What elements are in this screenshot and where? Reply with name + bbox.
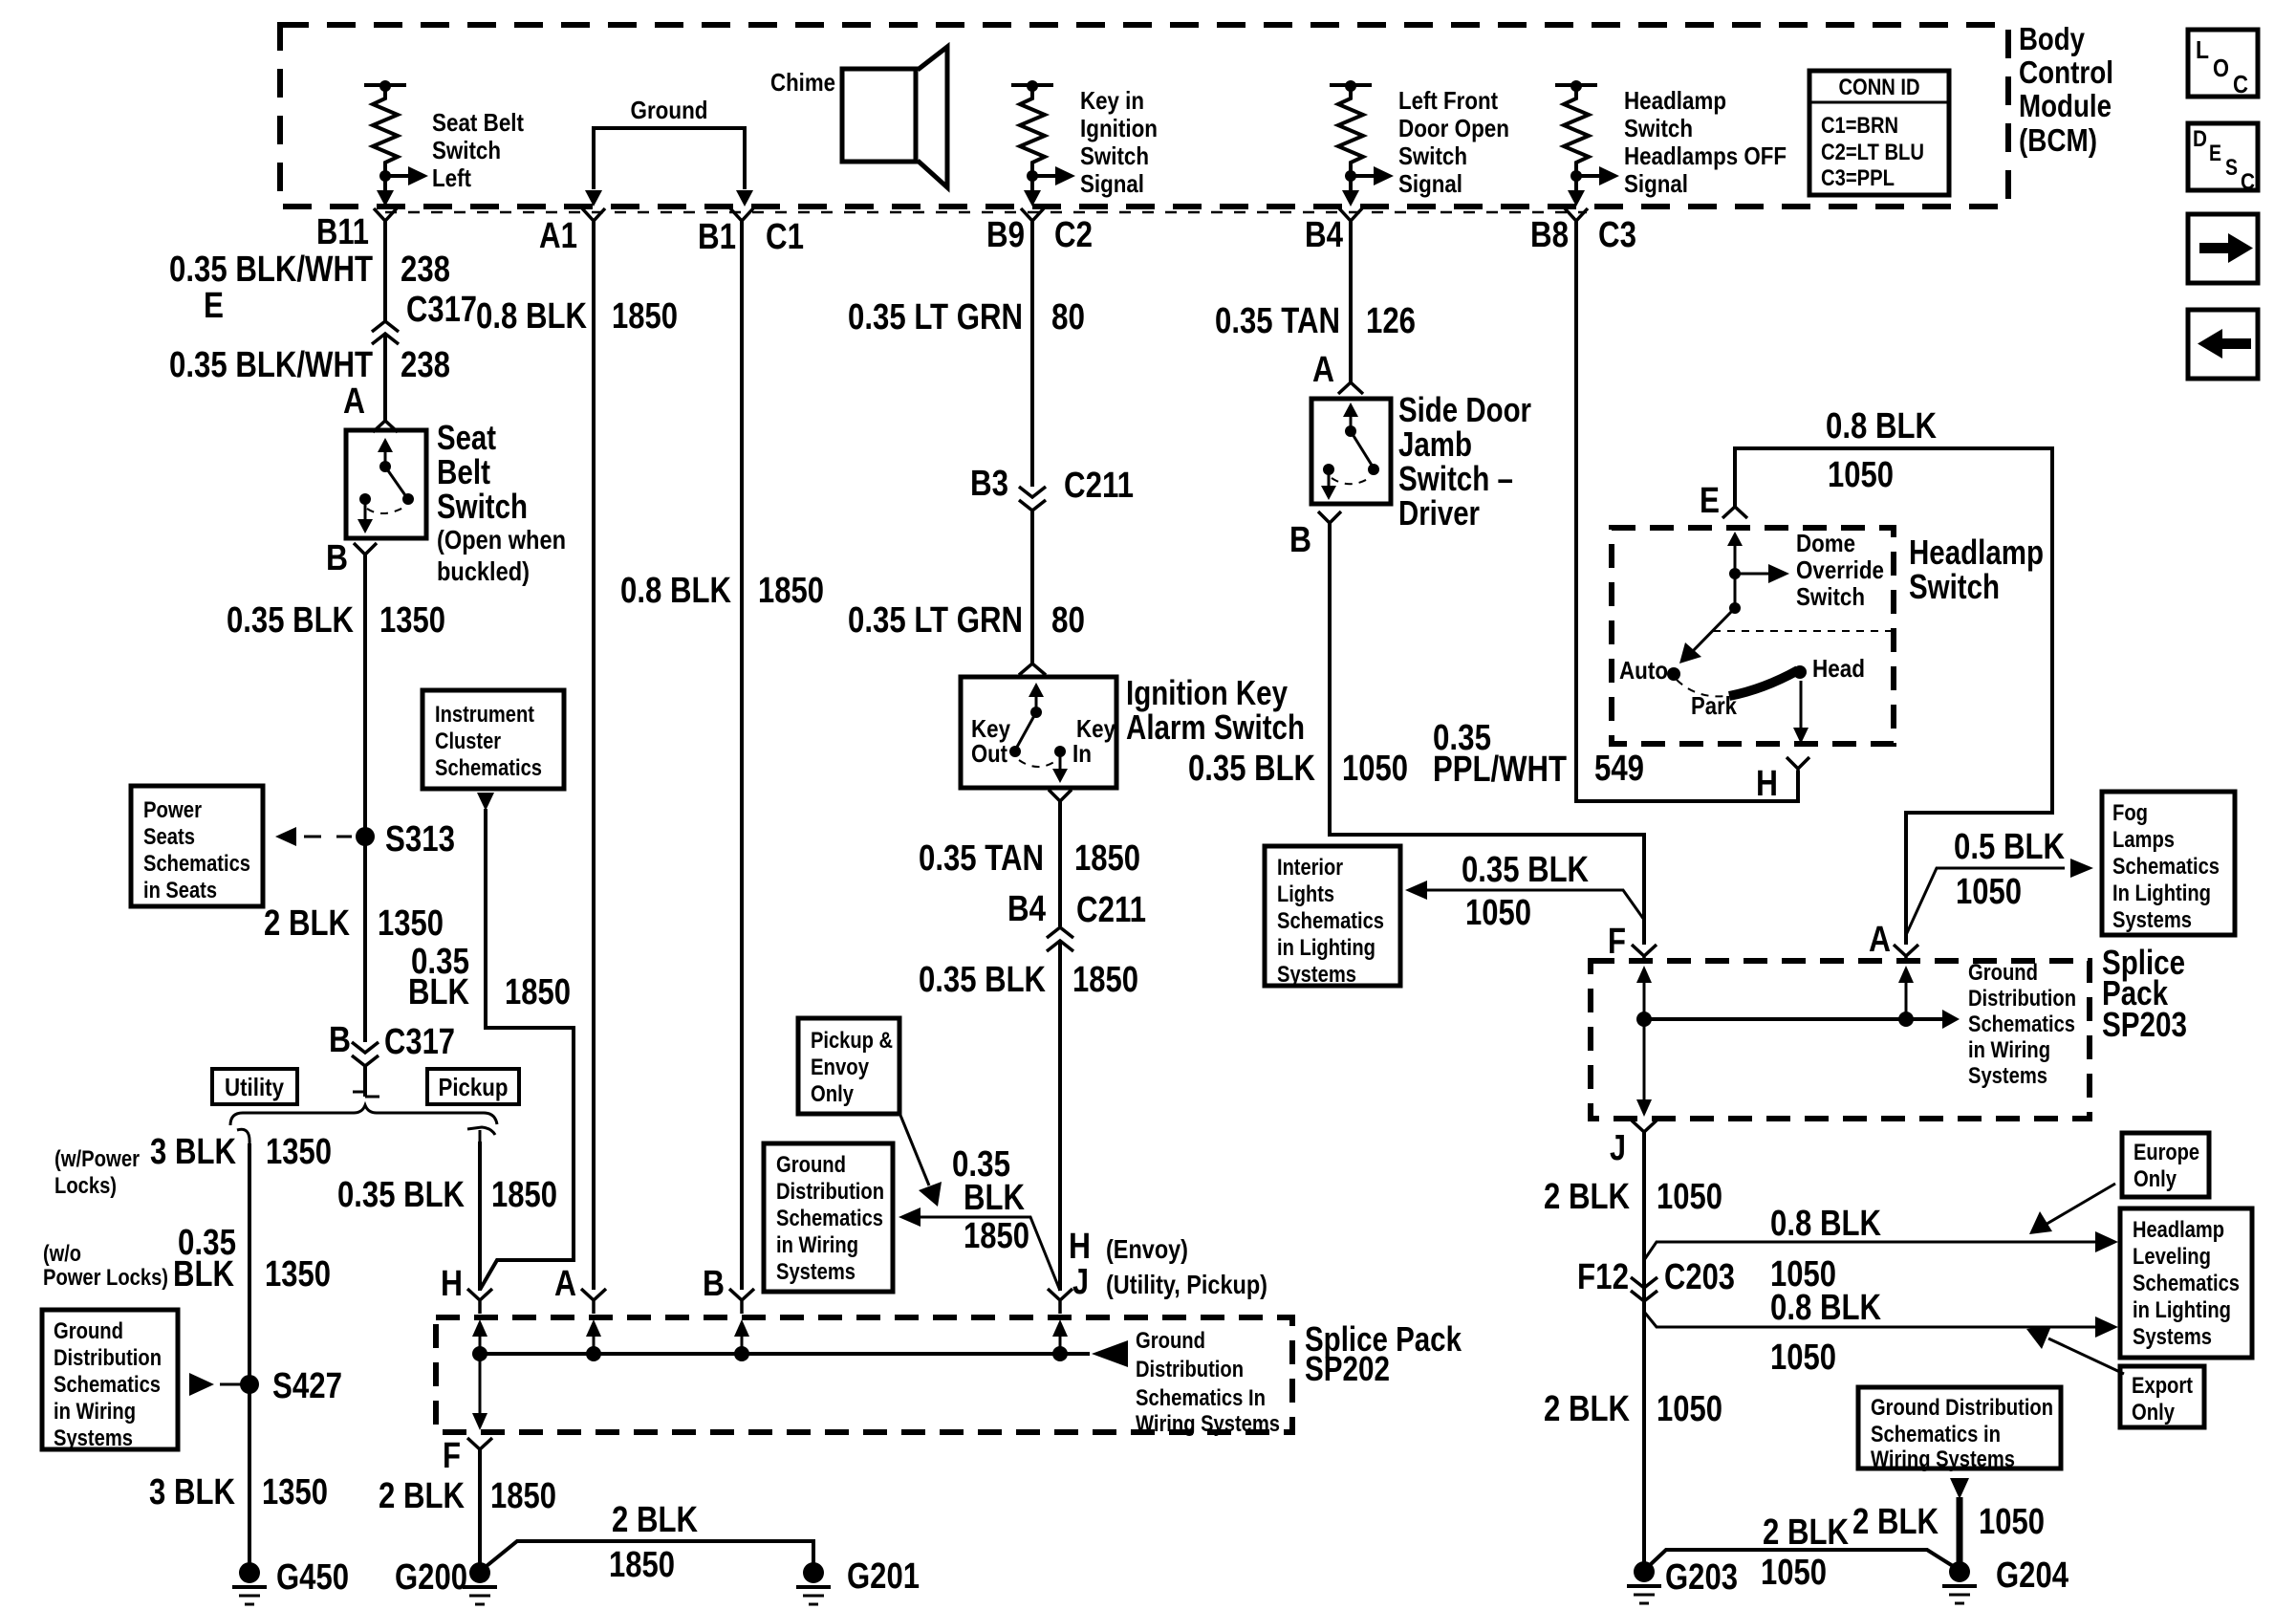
svg-text:Alarm Switch: Alarm Switch (1126, 707, 1305, 747)
ground G204 (1942, 1561, 1977, 1603)
SP202 J pin arrow (1052, 1319, 1068, 1361)
svg-text:Cluster: Cluster (435, 729, 501, 754)
ground G203 (1627, 1561, 1661, 1603)
svg-text:Schematics: Schematics (776, 1206, 883, 1231)
wire B9 to C211 (1030, 221, 1034, 487)
wire S313 to C317 (lower) (363, 837, 367, 1042)
Splice Pack SP203 name label (2102, 943, 2187, 1044)
svg-text:Schematics: Schematics (2133, 1271, 2240, 1296)
svg-text:0.8 BLK: 0.8 BLK (620, 571, 731, 611)
svg-text:G204: G204 (1996, 1556, 2069, 1596)
leader arrow from box to G204 wire (1950, 1478, 1969, 1499)
svg-text:SP202: SP202 (1305, 1349, 1390, 1388)
svg-text:(Open when: (Open when (437, 525, 566, 555)
Power Seats Schematics in Seats box (131, 786, 263, 906)
svg-text:Ground: Ground (776, 1152, 846, 1178)
svg-text:A: A (1312, 350, 1334, 390)
svg-text:Ground: Ground (631, 96, 708, 124)
svg-text:C3: C3 (1598, 215, 1636, 255)
svg-text:Schematics In: Schematics In (1136, 1385, 1266, 1411)
pin E chevron (1722, 507, 1747, 518)
svg-text:0.8 BLK: 0.8 BLK (1770, 1204, 1881, 1244)
svg-text:Fog: Fog (2112, 800, 2148, 826)
svg-text:0.35 BLK: 0.35 BLK (919, 960, 1046, 1000)
svg-text:Switch: Switch (1398, 141, 1467, 170)
DESC nav box (2188, 123, 2258, 195)
seat belt switch contacts (357, 438, 414, 533)
svg-text:0.8 BLK: 0.8 BLK (476, 296, 587, 337)
svg-text:(Utility, Pickup): (Utility, Pickup) (1106, 1270, 1267, 1299)
svg-text:Module: Module (2019, 88, 2112, 123)
wire ignition switch to C211 (B4) (1058, 801, 1062, 926)
svg-text:Signal: Signal (1624, 169, 1688, 198)
SP202 pin A chevron (581, 1289, 606, 1314)
resistor: Left Front Door Open Switch Signal (in BCM) (1330, 80, 1509, 207)
svg-text:Out: Out (971, 739, 1007, 768)
wire instrument cluster 1850 run (480, 809, 574, 1290)
leader arrow from Instrument Cluster box (477, 793, 494, 811)
svg-text:Jamb: Jamb (1398, 424, 1472, 464)
svg-text:C: C (2241, 169, 2255, 195)
svg-text:J: J (1610, 1128, 1626, 1168)
svg-text:In: In (1072, 739, 1092, 768)
svg-text:1850: 1850 (491, 1175, 557, 1215)
Ground Distribution Schematics in Wiring Systems box (bottom right) (1858, 1387, 2061, 1472)
dome override switch label (1796, 529, 1884, 611)
svg-text:Headlamp: Headlamp (2133, 1217, 2224, 1243)
pin B11 connector chevron (374, 208, 397, 221)
svg-text:B: B (329, 1020, 351, 1060)
svg-text:E: E (2209, 141, 2221, 166)
svg-text:Switch: Switch (1080, 141, 1149, 170)
svg-text:in Wiring: in Wiring (776, 1232, 858, 1258)
svg-text:3 BLK: 3 BLK (150, 1132, 236, 1172)
wire Head contact to H pin (1793, 681, 1809, 744)
wire G203 to G204 (1650, 1550, 1953, 1566)
svg-text:H: H (1069, 1227, 1091, 1267)
svg-text:BLK: BLK (408, 972, 469, 1012)
ground G201 (796, 1562, 831, 1604)
svg-text:Schematics in: Schematics in (1871, 1422, 2001, 1447)
svg-text:0.8 BLK: 0.8 BLK (1770, 1288, 1881, 1328)
seat belt switch box (346, 430, 426, 538)
SP203 pin A chevron (1894, 945, 1918, 964)
svg-text:S427: S427 (272, 1366, 342, 1406)
SP202 A pin arrow (586, 1319, 601, 1361)
svg-text:0.35 BLK/WHT: 0.35 BLK/WHT (169, 250, 373, 290)
svg-text:Seats: Seats (143, 824, 195, 850)
resistor: Headlamp Switch Headlamps OFF Signal (in BCM) (1555, 80, 1787, 207)
svg-text:in Wiring: in Wiring (1968, 1037, 2050, 1063)
Auto contact (1619, 656, 1680, 685)
utility branch hook (237, 1129, 249, 1143)
wire label 0.35 BLK 1850 (branch) (952, 1144, 1029, 1256)
svg-text:Ignition: Ignition (1080, 114, 1158, 142)
svg-text:Envoy: Envoy (811, 1055, 870, 1080)
svg-text:Body: Body (2019, 21, 2086, 56)
SP203 internal text (1968, 960, 2076, 1089)
svg-text:G201: G201 (847, 1556, 920, 1597)
in-line connector C203 (double chevron down) (1631, 1277, 1657, 1301)
headlamp switch dashed box (1612, 528, 1894, 744)
side door jamb switch box (1311, 399, 1391, 504)
svg-text:238: 238 (401, 345, 450, 385)
svg-text:1050: 1050 (1761, 1553, 1827, 1593)
svg-text:A: A (1869, 920, 1891, 960)
svg-text:1350: 1350 (379, 600, 445, 641)
svg-text:2 BLK: 2 BLK (1544, 1389, 1630, 1429)
svg-text:0.35 BLK: 0.35 BLK (1188, 749, 1315, 789)
svg-text:Left Front: Left Front (1398, 86, 1498, 115)
svg-text:Switch: Switch (1909, 567, 2000, 606)
Fog Lamps Schematics In Lighting Systems box (2102, 792, 2235, 935)
headlamp switch travel dashed arc (1677, 680, 1725, 696)
svg-text:Ground Distribution: Ground Distribution (1871, 1395, 2053, 1421)
SP202 H pin arrow (472, 1319, 487, 1361)
svg-text:E: E (204, 286, 224, 326)
pin B chevron (jamb switch) (1318, 511, 1341, 523)
svg-text:(BCM): (BCM) (2019, 122, 2097, 158)
Pickup and Envoy Only box (798, 1018, 899, 1114)
headlamp switch inner dashed divider (1713, 630, 1891, 632)
svg-text:G450: G450 (276, 1557, 349, 1598)
svg-text:2 BLK: 2 BLK (612, 1500, 698, 1540)
leader arrow Export Only to branch (2026, 1326, 2124, 1374)
CONN ID table (in BCM) (1809, 71, 1949, 195)
svg-text:1050: 1050 (1828, 455, 1894, 495)
svg-text:1350: 1350 (266, 1132, 332, 1172)
svg-text:Power: Power (143, 797, 202, 823)
Splice Pack SP202 name label (1305, 1319, 1462, 1388)
svg-text:Only: Only (811, 1081, 855, 1107)
pin A1 connector chevron (582, 208, 605, 221)
svg-text:C3=PPL: C3=PPL (1821, 165, 1895, 191)
svg-text:G203: G203 (1665, 1557, 1738, 1598)
svg-text:1350: 1350 (265, 1254, 331, 1295)
svg-text:1850: 1850 (1072, 960, 1138, 1000)
svg-text:(Envoy): (Envoy) (1106, 1234, 1188, 1264)
svg-text:0.35 BLK: 0.35 BLK (227, 600, 354, 641)
svg-text:Europe: Europe (2134, 1140, 2199, 1165)
SP203 F pin arrow (1636, 966, 1652, 1027)
pin B1 connector chevron (730, 208, 753, 221)
svg-text:Pickup &: Pickup & (811, 1028, 893, 1054)
headlamp switch name label (1909, 533, 2044, 606)
LOC nav box (2188, 30, 2258, 98)
svg-text:Chime: Chime (770, 68, 835, 97)
svg-text:Distribution: Distribution (1136, 1357, 1244, 1382)
svg-text:1050: 1050 (1465, 893, 1531, 933)
BCM connector face dashed line (385, 211, 1587, 214)
wire C1 ground run (740, 221, 744, 1290)
svg-text:Utility: Utility (225, 1073, 284, 1101)
BCM name label (2019, 21, 2113, 158)
svg-text:1350: 1350 (262, 1472, 328, 1512)
pin B chevron (seat belt switch) (354, 543, 377, 555)
ground G200 (463, 1562, 497, 1604)
svg-text:Wiring Systems: Wiring Systems (1871, 1447, 2015, 1472)
wire C3 headlamp signal run (1576, 221, 1798, 801)
wire C211 to splice pack J pin (1058, 941, 1062, 1291)
svg-text:Switch: Switch (432, 136, 501, 164)
pin B8 connector chevron (1565, 208, 1588, 221)
svg-text:Headlamps OFF: Headlamps OFF (1624, 141, 1787, 170)
wire jamb switch B to SP203 F pin (1330, 523, 1644, 945)
wire F to G200 (478, 1449, 482, 1569)
Interior Lights Schematics in Lighting Systems box (1265, 846, 1400, 988)
svg-text:C1=BRN: C1=BRN (1821, 113, 1898, 139)
svg-text:C203: C203 (1664, 1257, 1735, 1297)
svg-text:Ignition Key: Ignition Key (1126, 673, 1288, 712)
svg-text:F: F (1608, 922, 1626, 962)
svg-text:Door Open: Door Open (1398, 114, 1509, 142)
leader arrow Europe Only to branch (2029, 1184, 2115, 1234)
svg-text:1850: 1850 (505, 972, 571, 1012)
splice S313 (356, 827, 375, 846)
SP203 pin J chevron (1632, 1120, 1657, 1142)
in-line connector C317 (double chevron) (372, 321, 399, 344)
chime speaker (in BCM) (770, 47, 947, 187)
resistor: Seat Belt Switch Left (in BCM) (364, 80, 524, 207)
svg-text:in Lighting: in Lighting (1277, 935, 1375, 961)
fog lamps leader arrow 0.5 BLK 1050 (1906, 859, 2093, 935)
svg-text:SP203: SP203 (2102, 1005, 2187, 1044)
wire A1 ground run (592, 221, 596, 1290)
wire C317 to split brace (363, 1066, 367, 1097)
wire C317 to seat belt switch (383, 334, 387, 421)
svg-text:2 BLK: 2 BLK (264, 903, 350, 944)
svg-text:Ground: Ground (1136, 1328, 1205, 1354)
svg-text:Export: Export (2132, 1373, 2193, 1399)
svg-text:in Lighting: in Lighting (2133, 1297, 2231, 1323)
svg-text:Lights: Lights (1277, 881, 1334, 907)
svg-text:Pickup: Pickup (439, 1073, 509, 1101)
Headlamp Leveling Schematics in Lighting Systems box (2120, 1208, 2252, 1358)
svg-text:Override: Override (1796, 555, 1884, 584)
dashed leader arrow S313 to Power Seats box (275, 827, 352, 846)
svg-text:BLK: BLK (173, 1254, 234, 1295)
side door jamb switch contacts (1321, 402, 1379, 500)
svg-text:1050: 1050 (1979, 1502, 2045, 1542)
Instrument Cluster Schematics box (422, 690, 564, 789)
svg-text:2 BLK: 2 BLK (1544, 1177, 1630, 1217)
svg-text:0.35 BLK: 0.35 BLK (1462, 850, 1589, 890)
svg-text:A: A (554, 1264, 576, 1304)
svg-text:H: H (441, 1264, 463, 1304)
utility branch wire to G450 (248, 1143, 251, 1569)
svg-text:1350: 1350 (378, 903, 444, 944)
ignition key alarm switch box (961, 677, 1116, 788)
svg-text:Left: Left (432, 163, 471, 192)
svg-text:1850: 1850 (758, 571, 824, 611)
svg-text:Schematics: Schematics (435, 755, 542, 781)
svg-text:1050: 1050 (1657, 1389, 1722, 1429)
svg-text:C211: C211 (1076, 890, 1146, 930)
ignition key alarm switch name label (1126, 673, 1305, 747)
svg-text:B3: B3 (970, 464, 1008, 504)
svg-text:E: E (1700, 481, 1720, 521)
Europe Only box (2122, 1133, 2209, 1197)
svg-text:1050: 1050 (1342, 749, 1408, 789)
splice pack SP202 dashed box (436, 1317, 1292, 1432)
svg-text:Distribution: Distribution (776, 1179, 884, 1205)
svg-text:Auto: Auto (1619, 656, 1668, 685)
headlamp switch feed loop 0.8 BLK 1050 (1735, 448, 2052, 945)
SP203 pin F chevron (1632, 945, 1657, 964)
svg-text:C317: C317 (406, 290, 477, 330)
Body Control Module (BCM) dashed box (280, 25, 2008, 207)
Ground Distribution Schematics in Wiring Systems box (left) (42, 1310, 178, 1451)
svg-text:L: L (2196, 35, 2209, 64)
svg-text:in Wiring: in Wiring (54, 1399, 136, 1425)
svg-text:0.35 BLK/WHT: 0.35 BLK/WHT (169, 345, 373, 385)
svg-text:238: 238 (401, 250, 450, 290)
svg-text:(w/Power: (w/Power (54, 1146, 140, 1172)
svg-text:C: C (2233, 70, 2248, 98)
svg-text:B1: B1 (698, 217, 736, 257)
svg-text:B: B (1289, 520, 1311, 560)
SP203 internal bus (1644, 1017, 1944, 1021)
wire B4 to side door jamb switch (1349, 221, 1353, 382)
SP202 ground distribution leader arrow (1092, 1340, 1128, 1367)
pin B9 connector chevron (1021, 208, 1044, 221)
svg-text:80: 80 (1051, 600, 1085, 641)
svg-text:D: D (2193, 126, 2207, 152)
svg-text:Lamps: Lamps (2112, 827, 2175, 853)
svg-text:Key in: Key in (1080, 86, 1144, 115)
splice S427 (240, 1375, 259, 1394)
svg-text:Dome: Dome (1796, 529, 1855, 557)
svg-text:CONN ID: CONN ID (1839, 75, 1920, 100)
svg-text:Switch: Switch (437, 487, 528, 526)
seat belt switch name label (437, 418, 566, 586)
svg-text:S313: S313 (385, 819, 455, 859)
svg-text:C317: C317 (384, 1022, 455, 1062)
Utility tag box (212, 1069, 297, 1104)
SP202 B pin arrow (734, 1319, 749, 1361)
wire seat belt switch to S313 (363, 555, 367, 837)
SP203 J pin down arrow (1636, 1019, 1652, 1117)
svg-text:0.35 TAN: 0.35 TAN (1215, 301, 1340, 341)
splice pack SP203 dashed box (1591, 961, 2090, 1119)
svg-text:0.35 TAN: 0.35 TAN (919, 838, 1044, 879)
svg-text:Systems: Systems (54, 1425, 133, 1451)
svg-text:1850: 1850 (612, 296, 678, 337)
SP202 pin H chevron (467, 1289, 492, 1314)
svg-text:B: B (326, 538, 348, 578)
svg-text:0.35 LT GRN: 0.35 LT GRN (848, 297, 1023, 337)
svg-text:Seat Belt: Seat Belt (432, 108, 524, 137)
in-line connector C317 lower (double chevron down) (352, 1042, 379, 1066)
wire G200 to G201 (487, 1541, 813, 1566)
svg-text:Signal: Signal (1080, 169, 1144, 198)
svg-text:549: 549 (1594, 749, 1644, 789)
svg-text:1050: 1050 (1956, 872, 2022, 912)
svg-text:PPL/WHT: PPL/WHT (1433, 750, 1567, 790)
ignition key alarm switch contacts (971, 683, 1116, 783)
leader arrow to S427 (189, 1373, 241, 1396)
svg-text:Headlamp: Headlamp (1624, 86, 1726, 115)
svg-text:0.8 BLK: 0.8 BLK (1826, 406, 1937, 446)
pin A chevron (373, 421, 398, 432)
headlamp switch internals (1679, 532, 1789, 664)
svg-text:0.35 LT GRN: 0.35 LT GRN (848, 600, 1023, 641)
ignition switch output chevron (1049, 790, 1072, 801)
in-line connector C211 (double chevron down) (1019, 487, 1046, 511)
svg-text:C2=LT BLU: C2=LT BLU (1821, 140, 1924, 165)
wire B11 to C317 (383, 221, 387, 321)
branch wire 0.8 BLK to headlamp leveling (europe) (1644, 1231, 2118, 1260)
svg-text:C1: C1 (766, 217, 804, 257)
svg-text:Ground: Ground (1968, 960, 2038, 986)
svg-text:Systems: Systems (776, 1259, 856, 1285)
svg-text:In Lighting: In Lighting (2112, 881, 2211, 906)
svg-text:0.5 BLK: 0.5 BLK (1954, 827, 2065, 867)
svg-text:Only: Only (2134, 1166, 2177, 1192)
svg-text:Systems: Systems (2112, 907, 2192, 933)
resistor: Key in Ignition Switch Signal (in BCM) (1011, 80, 1158, 207)
Ground loop wire (in BCM) (585, 96, 753, 207)
svg-text:0.35 BLK: 0.35 BLK (337, 1175, 465, 1215)
svg-text:1050: 1050 (1657, 1177, 1722, 1217)
wire C211 to ignition key alarm switch (1030, 511, 1034, 664)
svg-text:Driver: Driver (1398, 493, 1480, 533)
svg-text:C211: C211 (1064, 466, 1134, 506)
svg-text:1050: 1050 (1770, 1338, 1836, 1378)
split brace (230, 1105, 497, 1125)
svg-text:O: O (2213, 54, 2229, 82)
Export Only box (2120, 1366, 2204, 1427)
svg-text:Side Door: Side Door (1398, 390, 1531, 429)
headlamp switch blade (thick arc) (1729, 670, 1798, 696)
svg-text:1850: 1850 (490, 1476, 556, 1516)
svg-text:in Seats: in Seats (143, 878, 217, 903)
SP202 pin F chevron (467, 1438, 492, 1463)
svg-text:A1: A1 (539, 216, 577, 256)
svg-text:Schematics: Schematics (1277, 908, 1384, 934)
svg-text:C2: C2 (1054, 215, 1093, 255)
wire J to G203 (1642, 1132, 1646, 1566)
SP202 pin B chevron (729, 1289, 754, 1314)
svg-text:Only: Only (2132, 1400, 2176, 1425)
branch arrow to ground distribution box (899, 1207, 1060, 1291)
interior lights leader arrow (1405, 881, 1644, 920)
SP203 bus right arrow (1942, 1010, 1960, 1029)
svg-text:Power Locks): Power Locks) (43, 1265, 168, 1291)
svg-text:A: A (343, 381, 365, 422)
svg-text:Switch –: Switch – (1398, 459, 1513, 498)
SP203 A pin arrow (1898, 966, 1914, 1027)
svg-text:G200: G200 (395, 1557, 467, 1598)
svg-text:Leveling: Leveling (2133, 1244, 2211, 1270)
SP202 pin J chevron (1048, 1289, 1072, 1314)
SP202 internal text (1136, 1328, 1280, 1437)
svg-text:B: B (703, 1264, 725, 1304)
branch wire 0.8 BLK to headlamp leveling (export) (1644, 1312, 2118, 1338)
svg-text:Schematics: Schematics (1968, 1012, 2075, 1037)
leader arrow from Pickup and Envoy box (899, 1113, 942, 1207)
svg-text:1850: 1850 (609, 1545, 675, 1585)
svg-text:(w/o: (w/o (43, 1241, 81, 1267)
svg-text:B4: B4 (1305, 215, 1343, 255)
svg-text:126: 126 (1366, 301, 1416, 341)
svg-text:Interior: Interior (1277, 855, 1343, 881)
svg-text:Control: Control (2019, 54, 2113, 90)
svg-text:Ground: Ground (54, 1318, 123, 1344)
Pickup tag box (427, 1069, 519, 1104)
svg-text:Locks): Locks) (54, 1173, 117, 1199)
svg-text:Distribution: Distribution (1968, 986, 2076, 1012)
